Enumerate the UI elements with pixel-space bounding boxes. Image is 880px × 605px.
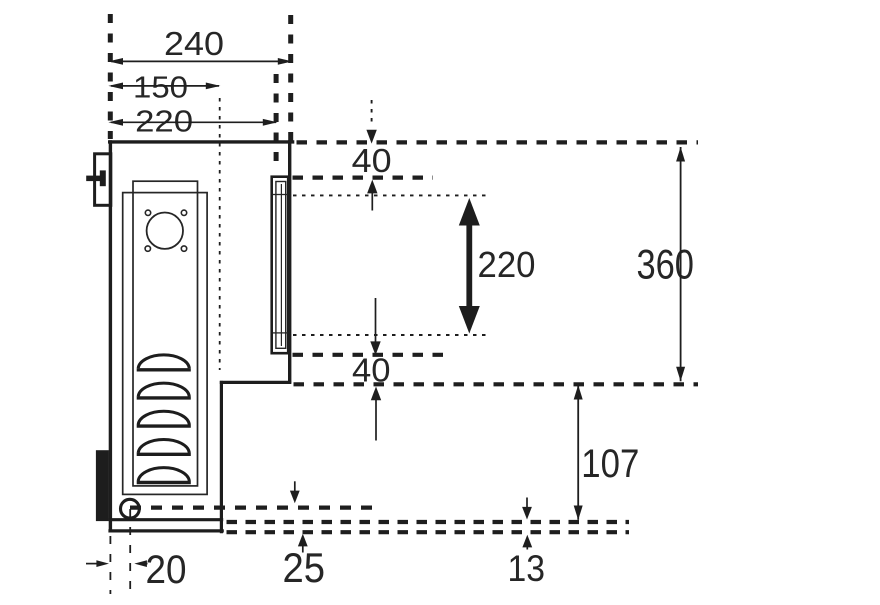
dimension 150 right arrowhead	[206, 83, 221, 90]
bracket screw shaft	[86, 176, 102, 182]
dim 25 up arrow tail	[302, 544, 304, 553]
dim 20 left arrow	[86, 563, 98, 565]
vent slat 2	[137, 383, 191, 398]
dimension 220 top line	[111, 121, 276, 123]
dotted line y335	[293, 334, 491, 336]
dim 20 left arrowhead	[96, 560, 109, 567]
dim 360 bottom arrowhead	[676, 367, 685, 382]
extension line left vertical dashed x110	[108, 14, 113, 139]
dimension 240 right arrowhead	[278, 58, 293, 65]
dim 13 down arrow tail	[526, 498, 528, 510]
dim 20 left extension dotted	[109, 536, 111, 594]
svg-text:20: 20	[146, 548, 187, 592]
dim 20 right arrow tail	[144, 563, 148, 565]
thick 220 arrow bottom head	[459, 306, 480, 334]
black block lower left	[96, 450, 109, 521]
dim 25 up arrowhead	[298, 534, 308, 547]
svg-text:150: 150	[133, 69, 188, 104]
dotted extension line x220	[219, 98, 221, 370]
dotted line y195	[293, 194, 491, 196]
fan boss circle	[147, 213, 183, 249]
cabinet right edge	[288, 140, 291, 383]
extension line right vertical dashed x291	[288, 15, 293, 146]
dashed line bottom row 2 y531	[227, 530, 630, 534]
door flap center line	[280, 184, 282, 346]
svg-text:25: 25	[283, 544, 326, 591]
dimension 150 left arrowhead	[108, 83, 123, 90]
svg-text:220: 220	[135, 103, 193, 138]
door flap inner rect	[276, 182, 286, 349]
dim 107 bottom arrowhead	[574, 506, 583, 521]
dimension 150 line	[111, 85, 219, 87]
dim 13 down arrowhead	[522, 507, 532, 520]
dimension 240 left arrowhead	[108, 58, 123, 65]
dim 13 up arrow tail	[526, 545, 528, 550]
svg-text:360: 360	[636, 241, 694, 288]
thick 220 arrow shaft	[466, 210, 472, 322]
dim 360 top arrowhead	[676, 147, 685, 162]
dashed line bottom long y384	[294, 382, 699, 386]
dashed line bottom row 1 y521	[227, 520, 630, 524]
bottom 40 down arrowhead	[370, 341, 380, 355]
screw hole bottom-left	[145, 246, 150, 251]
door panel inner plate rect	[133, 181, 198, 486]
vent slat 1	[137, 355, 191, 370]
top 40 down arrowhead	[366, 130, 376, 144]
svg-text:40: 40	[352, 142, 392, 179]
top 40 up arrow tail	[371, 191, 373, 211]
dim 25 down arrowhead	[290, 491, 300, 504]
thick 220 arrow top head	[459, 198, 480, 226]
svg-text:107: 107	[581, 442, 639, 486]
dashed line y177	[293, 176, 434, 180]
dim 20 right arrowhead	[134, 560, 147, 567]
vent slat 3	[137, 411, 191, 426]
extension line middle vertical dashed x276	[274, 74, 279, 166]
dim 107 top arrowhead	[574, 385, 583, 400]
dim 107 line	[577, 385, 579, 520]
svg-text:13: 13	[507, 548, 545, 589]
dim 25 down arrow tail	[294, 481, 296, 493]
dimension 220 top right arrowhead	[263, 119, 278, 126]
dashed line y355	[293, 353, 445, 357]
svg-text:240: 240	[164, 25, 224, 62]
drain circle	[120, 499, 139, 518]
cabinet bottom line upper	[109, 518, 223, 521]
bottom 40 down arrow tail	[375, 298, 377, 344]
screw hole top-right	[181, 210, 186, 215]
cabinet bottom line lower	[108, 529, 223, 532]
wall bracket	[95, 154, 111, 206]
screw hole top-left	[145, 210, 150, 215]
dashed line top long y142	[297, 140, 699, 144]
door flap outer rect	[272, 177, 289, 354]
vent slat 4	[137, 439, 191, 454]
dimension 220 top left arrowhead	[108, 119, 123, 126]
door panel outer rect	[123, 193, 207, 495]
vent slat 5	[137, 468, 191, 483]
dim 360 line	[680, 147, 682, 381]
bottom 40 up arrow tail	[375, 398, 377, 441]
door flap top tick	[273, 194, 289, 196]
cabinet step horizontal	[220, 381, 291, 384]
dim 20 right extension dotted	[129, 509, 131, 594]
screw hole bottom-right	[181, 246, 186, 251]
cabinet top edge	[108, 140, 294, 143]
svg-text:220: 220	[478, 244, 536, 285]
svg-text:40: 40	[352, 351, 391, 388]
dimension 240 line	[111, 60, 290, 62]
top 40 up arrowhead	[367, 180, 377, 194]
dashed line vent level y507	[130, 506, 376, 510]
dim 13 up arrowhead	[522, 535, 532, 548]
cabinet left edge	[109, 140, 112, 532]
bottom 40 up arrowhead	[371, 387, 381, 401]
bracket screw head	[100, 170, 106, 186]
top 40 down arrow dotted tail	[371, 100, 373, 127]
cabinet step vertical	[220, 381, 223, 533]
door flap bottom tick	[273, 332, 289, 334]
